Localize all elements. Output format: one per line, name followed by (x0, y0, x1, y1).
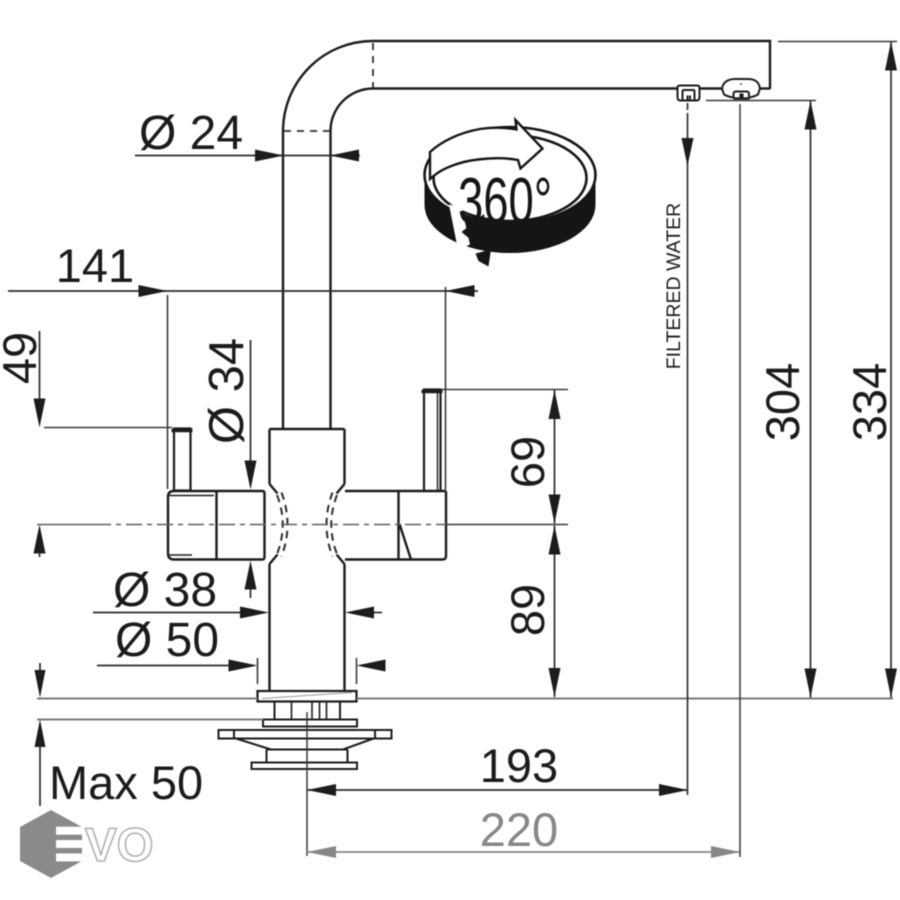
360 black return arrow (449, 205, 470, 251)
countertop surface lines (37, 699, 893, 720)
mounting plate (219, 730, 392, 750)
dimension Max 50 (35, 663, 204, 809)
svg-text:Ø 34: Ø 34 (200, 338, 254, 444)
big aerator (main outlet dome) (722, 79, 760, 99)
dimension 89 (501, 526, 561, 698)
svg-text:Ø 50: Ø 50 (115, 614, 219, 667)
hidden intersection dashed curves (277, 493, 337, 557)
dimension 334 (778, 42, 897, 698)
dimension Ø24 (135, 107, 360, 162)
EVO logo (20, 810, 154, 878)
centerline extension right (69/89 datum) (446, 524, 568, 526)
spout bottom edge right stub (760, 87, 771, 89)
elbow inner arc (331, 89, 374, 132)
riser pipe left edge (282, 131, 284, 429)
spout top edge and right end (373, 41, 770, 89)
svg-text:193: 193 (480, 739, 558, 792)
elbow outer arc (283, 41, 373, 131)
riser pipe right edge (329, 131, 331, 429)
small aerator (filtered water outlet) (678, 86, 700, 101)
threaded shank under flange (275, 702, 341, 720)
360 degree rotation symbol (425, 120, 596, 267)
left handle lever (172, 429, 193, 491)
base flange (258, 691, 357, 702)
dimension 304 (706, 101, 817, 698)
dimension 193 (307, 712, 688, 856)
elbow tangent dashed lines (284, 43, 373, 131)
dimension Ø38 (93, 564, 382, 619)
mounting cylinder (267, 750, 348, 763)
dimension 141 (8, 239, 478, 490)
dimension Ø50 (97, 614, 386, 684)
svg-text:VO: VO (85, 819, 154, 872)
svg-text:360°: 360° (458, 164, 552, 237)
spout bottom edge between aerators (700, 87, 722, 89)
svg-text:69: 69 (501, 436, 554, 488)
horizontal centerline through valves (37, 524, 446, 526)
svg-text:220: 220 (480, 803, 558, 856)
dimension 49 (0, 331, 172, 557)
central valve body (270, 429, 345, 691)
360 white rotation arrow (430, 120, 543, 179)
bottom mounting plate (252, 763, 358, 770)
dimension 69 (441, 390, 569, 524)
under-counter washer (263, 720, 357, 727)
dimension Ø34 (200, 338, 257, 598)
faucet spout and riser pipe outline (283, 41, 770, 429)
spout bottom edge (373, 87, 677, 89)
svg-text:89: 89 (501, 584, 554, 636)
svg-text:Ø 38: Ø 38 (113, 564, 217, 617)
svg-text:141: 141 (56, 239, 134, 292)
right handle lever (422, 390, 443, 492)
svg-text:304: 304 (756, 363, 809, 441)
svg-text:FILTERED WATER: FILTERED WATER (663, 203, 685, 369)
svg-text:Max 50: Max 50 (49, 756, 203, 809)
dimension 220 (grey) (307, 104, 740, 858)
svg-text:Ø 24: Ø 24 (139, 107, 243, 160)
svg-text:334: 334 (843, 363, 896, 441)
right valve body (345, 491, 446, 560)
left valve body (168, 491, 265, 560)
filtered water leader line (663, 103, 694, 795)
